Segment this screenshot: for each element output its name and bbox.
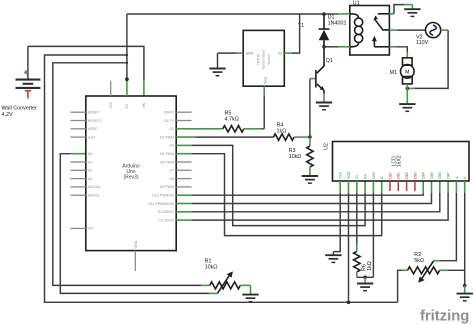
pin GND bottom stub	[134, 240, 138, 271]
svg-text:DB1: DB1	[397, 172, 401, 179]
battery V1 Wall Converter 4.2V	[2, 46, 41, 118]
svg-text:VSS: VSS	[339, 171, 343, 179]
svg-text:DB2: DB2	[405, 172, 409, 179]
wire TMP36 Vout down to R5	[263, 86, 265, 129]
pin RESET	[70, 111, 100, 115]
pin LCD DB1 (unconnected)	[397, 172, 401, 191]
pin D1/TX	[164, 119, 192, 123]
svg-text:D10 PWM/SS: D10 PWM/SS	[152, 194, 174, 198]
LCD U2 box	[323, 142, 469, 182]
svg-text:D2: D2	[170, 127, 175, 131]
wire D1 top to relay coil + rail	[324, 13, 350, 15]
pin AREF	[70, 127, 97, 131]
pin 3V3 (unconnected stub)	[109, 81, 113, 109]
ground R1	[242, 295, 258, 302]
svg-text:V0: V0	[355, 175, 359, 179]
ground K	[457, 286, 473, 301]
pin A1	[70, 160, 92, 164]
svg-text:D5 PWM: D5 PWM	[160, 152, 174, 156]
svg-text:D11 PWM/MOSI: D11 PWM/MOSI	[148, 202, 174, 206]
pin LCD DB3 (unconnected)	[413, 172, 417, 191]
wire D4 to LCD RS	[176, 145, 365, 225]
pin A3	[70, 177, 92, 181]
wire D5 to LCD E	[176, 154, 382, 236]
wire V2 to motor bottom	[406, 30, 449, 90]
svg-text:A5/SCL: A5/SCL	[88, 194, 100, 198]
AC source V2 110V	[389, 23, 440, 46]
potentiometer R2 5k	[403, 252, 465, 283]
svg-text:1kΩ: 1kΩ	[277, 129, 287, 135]
svg-text:RS: RS	[364, 173, 368, 178]
ground Q1-emitter	[316, 103, 332, 110]
svg-text:D1/TX: D1/TX	[164, 119, 175, 123]
svg-text:5kΩ: 5kΩ	[414, 258, 424, 264]
pin N/C	[70, 227, 94, 231]
pin A2	[70, 169, 92, 173]
wire 5V top rail	[127, 13, 324, 15]
svg-text:1N4001: 1N4001	[328, 20, 347, 26]
ground LCD-VSS	[325, 252, 341, 263]
svg-text:VIN: VIN	[142, 102, 146, 108]
svg-text:Sensor: Sensor	[267, 53, 271, 65]
pin D9 PWM	[160, 185, 192, 189]
svg-text:DB4: DB4	[422, 172, 426, 179]
svg-text:A3: A3	[88, 177, 92, 181]
svg-text:ioref: ioref	[88, 135, 95, 139]
motor M1	[389, 47, 414, 89]
svg-text:R/W: R/W	[372, 171, 376, 178]
wire D11-DB5	[176, 181, 431, 204]
wire 5V rail left drop (x=44.5) to bottom rail	[45, 55, 398, 302]
transistor Q1 NPN	[316, 47, 333, 103]
svg-text:D12/MISO: D12/MISO	[158, 210, 175, 214]
svg-text:1kΩ: 1kΩ	[367, 261, 373, 271]
svg-text:3V3: 3V3	[109, 102, 113, 108]
svg-text:Vs: Vs	[278, 52, 282, 56]
wire TMP36 Vs to 5V rail (T1 net)	[284, 14, 299, 53]
svg-text:T1: T1	[298, 23, 304, 29]
resistor R5 4.7k on D2	[176, 110, 264, 132]
wire LCD leg x=340.2	[339, 181, 341, 193]
wire D10-DB4	[176, 181, 423, 195]
wire R2 left to 5V bottom rail	[398, 270, 403, 302]
svg-text:VDD: VDD	[347, 171, 351, 179]
svg-text:RESET: RESET	[88, 111, 101, 115]
resistor R6 1k from LCD V0 to ground	[354, 193, 373, 278]
svg-text:110V: 110V	[416, 40, 429, 46]
wire LCD A to R2 wiper	[434, 193, 457, 261]
wire TMP36 GND pin to ground	[218, 52, 244, 54]
microcontroller U3 Arduino Uno (Rev3)	[86, 96, 176, 251]
svg-text:10kΩ: 10kΩ	[205, 265, 218, 271]
svg-text:AREF: AREF	[88, 127, 97, 131]
svg-text:DB7: DB7	[447, 172, 451, 179]
pin D0/RX	[164, 111, 192, 115]
svg-text:5V: 5V	[125, 104, 129, 109]
pin D6 PWM	[160, 160, 192, 164]
svg-text:Q1: Q1	[326, 58, 333, 64]
resistor R3 10k to ground	[289, 137, 314, 176]
svg-text:TMP36: TMP36	[256, 54, 260, 65]
svg-text:Wall Converter: Wall Converter	[2, 106, 38, 112]
pin ioref	[70, 135, 94, 139]
pin D7	[170, 169, 192, 173]
potentiometer R1 10k	[205, 259, 251, 294]
pin LCD DB0 (unconnected)	[388, 172, 392, 191]
wire A0 to R1 wiper	[60, 154, 217, 294]
svg-text:DB0: DB0	[388, 172, 392, 179]
svg-text:D6 PWM: D6 PWM	[160, 160, 174, 164]
ground TMP36-GND	[209, 53, 225, 76]
wire LCD leg x=348.5	[348, 181, 350, 193]
wire battery+ to Arduino VIN	[28, 46, 144, 96]
svg-text:D0/RX: D0/RX	[164, 111, 175, 115]
svg-text:DB3: DB3	[413, 172, 417, 179]
pin RESET2	[70, 119, 101, 123]
svg-text:D9 PWM: D9 PWM	[160, 185, 174, 189]
wire 5V left drop (x=52.8) to R1 left end	[53, 63, 210, 286]
svg-text:DB5: DB5	[430, 172, 434, 179]
svg-text:D7: D7	[170, 169, 175, 173]
ground relay-NC	[404, 5, 420, 17]
sensor T1 TMP36 box	[243, 23, 304, 86]
svg-text:4.7kΩ: 4.7kΩ	[225, 116, 239, 122]
wire LCD leg x=456.4	[455, 181, 457, 193]
svg-text:Temperature: Temperature	[262, 50, 266, 70]
svg-text:U1: U1	[353, 1, 360, 7]
wire D1 bottom to relay coil	[324, 46, 350, 48]
diode D1 1N4001	[319, 12, 347, 48]
svg-text:A4/SDA: A4/SDA	[88, 185, 101, 189]
ground motor	[399, 88, 415, 111]
wire LCD leg x=464.7	[464, 181, 466, 193]
pin 5V with junction node	[125, 14, 129, 109]
svg-text:fritzing: fritzing	[420, 309, 469, 325]
svg-text:16X2: 16X2	[397, 155, 403, 167]
pin A4/SDA	[70, 185, 101, 189]
ground R3	[302, 176, 318, 183]
resistor R4 1k on D3 to Q1 base	[176, 123, 312, 141]
pin D8	[170, 177, 192, 181]
pin A5/SCL	[70, 194, 100, 198]
wire LCD VDD to 5V bottom rail	[347, 193, 351, 305]
svg-text:U2: U2	[323, 143, 329, 150]
svg-text:A1: A1	[88, 160, 92, 164]
wire LCD VSS to ground	[333, 193, 340, 252]
pin LCD DB2 (unconnected)	[405, 172, 409, 191]
wire D13-DB7	[176, 181, 448, 220]
relay U1	[350, 1, 390, 55]
svg-text:M: M	[405, 70, 410, 76]
svg-text:DB6: DB6	[438, 172, 442, 179]
wire R/W to ground junction	[357, 193, 374, 280]
wire node to Q1 base	[310, 79, 316, 138]
svg-text:GND: GND	[246, 52, 254, 56]
svg-text:GND: GND	[134, 240, 138, 248]
svg-text:D8: D8	[170, 177, 175, 181]
wire R1 right to ground	[250, 285, 252, 294]
wire LCD leg x=356.8	[356, 181, 358, 193]
svg-text:N/C: N/C	[88, 227, 95, 231]
svg-text:D3 PWM: D3 PWM	[160, 135, 174, 139]
svg-text:M1: M1	[390, 70, 398, 76]
ground R6-RW	[357, 277, 373, 290]
wire relay NC to ground	[389, 5, 412, 14]
svg-text:D13/SCK: D13/SCK	[159, 218, 174, 222]
wire LCD K to ground	[463, 193, 467, 288]
svg-text:Vout: Vout	[264, 77, 268, 84]
svg-text:4.2V: 4.2V	[2, 112, 13, 118]
wire LCD leg x=373.4	[372, 181, 374, 193]
svg-text:A0: A0	[88, 152, 92, 156]
svg-text:D4: D4	[170, 144, 175, 148]
wire D12-DB6	[176, 181, 440, 212]
svg-text:10kΩ: 10kΩ	[289, 154, 302, 160]
svg-text:A2: A2	[88, 169, 92, 173]
svg-text:RESET2: RESET2	[88, 119, 102, 123]
svg-text:(Rev3): (Rev3)	[123, 175, 138, 181]
